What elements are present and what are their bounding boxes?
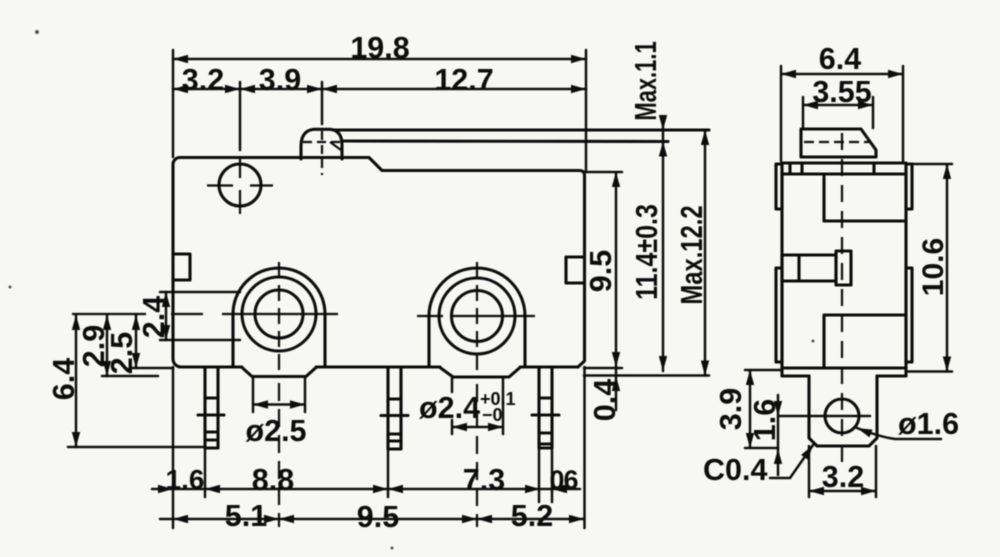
svg-text:Max.12.2: Max.12.2 (674, 205, 709, 304)
svg-text:2.5: 2.5 (105, 332, 139, 374)
svg-text:ø2.5: ø2.5 (245, 414, 306, 448)
svg-text:2.4: 2.4 (137, 296, 171, 338)
svg-text:1.6: 1.6 (166, 464, 205, 495)
svg-text:3.2: 3.2 (182, 63, 224, 97)
svg-text:8.8: 8.8 (252, 463, 294, 497)
svg-text:ø1.6: ø1.6 (898, 407, 959, 441)
svg-text:0.4: 0.4 (588, 379, 622, 421)
svg-text:9.5: 9.5 (584, 250, 618, 292)
svg-text:3.55: 3.55 (812, 75, 871, 109)
svg-text:Max.1.1: Max.1.1 (628, 41, 662, 120)
svg-text:10.6: 10.6 (917, 238, 950, 296)
svg-text:12.7: 12.7 (434, 63, 493, 97)
svg-text:11.4±0.3: 11.4±0.3 (630, 204, 664, 300)
svg-text:3.2: 3.2 (822, 460, 864, 494)
svg-text:3.9: 3.9 (714, 388, 748, 430)
svg-text:1.6: 1.6 (748, 399, 782, 441)
svg-text:ø2.4: ø2.4 (419, 391, 480, 425)
svg-text:3.9: 3.9 (259, 63, 301, 97)
svg-text:7.3: 7.3 (463, 463, 505, 497)
svg-text:6.4: 6.4 (47, 358, 81, 400)
svg-text:5.1: 5.1 (225, 499, 267, 533)
svg-text:0.6: 0.6 (550, 465, 579, 495)
svg-text:9.5: 9.5 (357, 500, 399, 534)
svg-text:6.4: 6.4 (819, 42, 861, 76)
svg-text:5.2: 5.2 (511, 499, 553, 533)
svg-text:19.8: 19.8 (350, 31, 409, 65)
svg-text:C0.4: C0.4 (703, 453, 767, 487)
svg-text:−0: −0 (482, 405, 503, 425)
